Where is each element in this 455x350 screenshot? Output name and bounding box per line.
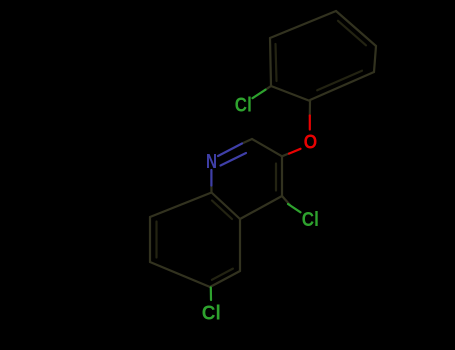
wire C3 to O dark part: [282, 153, 289, 156]
wire B-C phenyl C2'-C3': [270, 38, 271, 86]
wire C4a-C8a inner double: [212, 201, 232, 220]
wire A-B phenyl C1'-C2': [271, 86, 310, 101]
wire C7-C6 benzo: [150, 262, 210, 287]
wire N-C8a dark part: [210, 186, 212, 193]
wire B to Cl dark part: [265, 86, 271, 90]
svg-text:Cl: Cl: [235, 95, 252, 117]
wire N=C2 inner double blue: [221, 153, 247, 166]
wire Cl top stub green: [253, 90, 266, 99]
wire C4-C4a: [240, 196, 282, 219]
wire O up stub red: [309, 116, 311, 130]
wire C2-C3 pyridine: [252, 139, 282, 156]
wire D-E phenyl C4'-C5': [336, 11, 376, 46]
wire A to O upper dark part: [309, 101, 311, 116]
wire F-A phenyl C6'-C1': [310, 72, 374, 100]
wire C3-C4 main: [281, 156, 283, 196]
wire N-C8a blue part: [210, 170, 212, 186]
wire C6-C5 inner double: [212, 269, 233, 280]
wire E-F phenyl C5'-C6': [374, 46, 376, 72]
svg-text:Cl: Cl: [202, 303, 221, 325]
wire B-C inner double: [276, 44, 277, 81]
svg-text:Cl: Cl: [302, 209, 319, 231]
svg-text:O: O: [304, 131, 318, 153]
svg-text:N: N: [206, 151, 217, 173]
wire O down-left stub red: [289, 149, 301, 154]
wire C4 to Cl dark part: [282, 196, 290, 205]
wire D-E inner double: [338, 21, 366, 46]
wire C8a-C8 benzo: [150, 193, 212, 218]
wire C5-C4a benzo: [239, 219, 241, 271]
wire N=C2 dark end of main line: [242, 139, 252, 144]
wire C3-C4 inner double: [275, 164, 277, 191]
wire C6-C5 benzo: [210, 271, 240, 287]
wire C8-C7 inner double: [155, 222, 157, 258]
wire Cl right stub green: [288, 204, 301, 212]
wire Cl bottom stub green: [210, 288, 212, 301]
wire C-D phenyl C3'-C4': [270, 11, 336, 38]
wire F-A inner double: [317, 71, 362, 91]
wire C8-C7 benzo: [149, 217, 151, 262]
wire N=C2 main blue part: [218, 144, 242, 157]
wire C4a-C8a main: [212, 193, 241, 220]
